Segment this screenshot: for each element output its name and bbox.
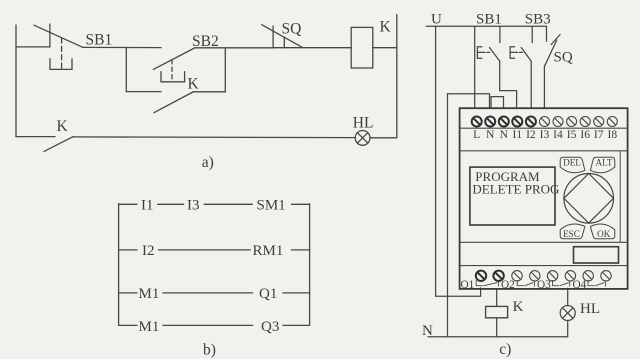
svg-text:I1: I1 [141,198,154,214]
svg-text:Q1: Q1 [461,279,475,291]
module separator below body [459,241,627,243]
wire: branch from top line down to terminal L [474,26,476,107]
pushbutton SB1 actuator button symbol [50,59,72,70]
limit switch SQ (NC) fixed contact tick [272,26,274,48]
bottom terminal labels Q1..Q4 [461,279,587,291]
PLC module outline [460,108,628,289]
wire: lamp HL (c) top lead [567,288,569,305]
svg-text:N: N [500,128,509,141]
module separator above body [459,150,627,152]
svg-text:K: K [513,299,524,315]
ladder b row1 wires [119,203,310,205]
ladder b right rail [309,204,311,326]
pushbutton SB3 E actuator [510,47,522,59]
ladder b left rail [118,204,120,326]
limit switch SQ (c) blade [545,40,557,66]
bottom terminal screws (thin) [512,271,611,281]
module separator above bottom screws [459,265,627,267]
svg-text:ESC: ESC [563,229,580,239]
limit switch SQ (c) upper lead [546,26,548,41]
printed output contact symbols [476,280,605,287]
svg-text:I1: I1 [512,128,522,141]
ladder b row3 wires [119,292,310,294]
svg-text:I5: I5 [567,128,577,141]
ladder b row2 wires [119,249,310,251]
module separator under top screws [459,127,627,129]
wire: SB1 to SB2 [83,46,162,48]
svg-text:I8: I8 [607,128,617,141]
wire: N rail down to N line [447,94,449,337]
svg-text:DELETE PROG: DELETE PROG [472,182,559,197]
wire: SB2 to SQ [195,47,273,49]
wire: part a right rail [396,15,398,138]
wire: N bottom line [428,336,568,338]
svg-text:N: N [486,128,495,141]
wire: N-N terminal jumper [491,97,504,108]
limit switch SQ (NC) blade [262,25,302,48]
svg-text:K: K [188,76,200,93]
svg-text:SM1: SM1 [257,198,286,214]
svg-text:I2: I2 [526,128,536,141]
button OK (wedge key) [590,224,614,239]
navigation pad circle [564,174,614,224]
pushbutton SB1 (c) E actuator [477,47,489,59]
svg-text:Q2: Q2 [501,279,515,291]
wire: SQ (c) lower lead to terminal I3 [543,66,545,108]
svg-text:DEL: DEL [563,157,581,167]
contact K (NO, bottom rung) blade [44,137,73,152]
limit switch SQ vertical tick [283,37,285,48]
pushbutton SB3 blade [521,48,531,62]
wire: U rail down-left [436,26,481,296]
svg-text:SQ: SQ [554,50,573,66]
pushbutton SB3 upper lead [531,26,533,42]
svg-text:HL: HL [353,115,374,132]
svg-text:OK: OK [597,229,611,239]
svg-text:SQ: SQ [282,20,302,37]
svg-text:SB2: SB2 [192,33,219,50]
svg-text:I2: I2 [142,243,155,259]
svg-text:SB1: SB1 [86,32,113,49]
svg-text:SB1: SB1 [476,12,502,28]
lamp HL (c) circle with cross [560,306,575,321]
svg-text:I6: I6 [580,128,590,141]
button DEL (wedge key) [560,157,585,172]
svg-text:ALT: ALT [595,157,612,167]
nameplate small rectangle [574,247,619,263]
svg-text:SB3: SB3 [525,12,551,28]
relay coil K (c) rectangle [486,306,508,317]
svg-text:K: K [57,118,69,135]
wire: part a top rung from rail to SB1 [16,46,50,48]
bottom terminal screws Q1 pair (bold) [476,271,504,281]
wire: parallel branch left drop [126,48,161,92]
top terminal labels [473,128,617,141]
pushbutton SB1 (NC) fixed contact tick [49,24,51,47]
svg-text:HL: HL [580,301,600,317]
svg-text:Q3: Q3 [537,279,551,291]
svg-text:c): c) [499,341,511,358]
top terminal screws L N N I1 I2 (bold) [472,117,536,127]
svg-text:b): b) [203,341,216,358]
wire: lamp HL to right rail [370,137,397,139]
svg-text:I3: I3 [540,128,550,141]
pushbutton SB1 (NC) blade [34,25,83,47]
wire: parallel branch right side [193,48,225,92]
svg-text:N: N [422,323,433,339]
svg-text:I3: I3 [187,198,200,214]
wire: coil K to right rail [373,47,397,49]
svg-text:Q4: Q4 [573,279,587,291]
svg-text:Q1: Q1 [259,286,277,302]
wire: SB1 (c) lower lead to terminal I1 [500,61,517,107]
wire: bottom rung to lamp HL [73,136,355,139]
contact K (NO, parallel with SB2) blade [154,92,193,113]
top terminal screws I3..I8 (thin) [540,117,618,127]
wire: relay K coil bottom lead [496,318,498,337]
keypad inner right edge line [619,151,621,243]
svg-text:Q3: Q3 [261,319,279,335]
pushbutton SB2 actuator button symbol [161,72,185,82]
ladder b row4 wires [119,324,310,326]
lamp HL circle with cross [355,131,370,146]
pushbutton SB1 (c) upper lead [499,26,501,42]
svg-text:K: K [380,18,392,35]
svg-text:I7: I7 [594,128,604,141]
navigation pad diamond [564,174,614,224]
wire: bottom rung left segment [16,136,55,138]
wire: SQ to coil K [273,47,351,49]
svg-text:L: L [473,128,480,141]
wire: N branch to terminal N [448,94,490,108]
svg-text:RM1: RM1 [253,243,284,259]
wire: lamp HL (c) bottom lead [567,320,569,336]
pushbutton SB1 actuator dashed link [61,38,63,69]
button ESC (wedge key) [560,224,585,239]
display window rectangle [470,167,555,225]
wire: part c top supply line U [426,25,546,27]
pushbutton SB1 (c) blade [490,48,500,62]
relay coil K rectangle [351,27,373,68]
button ALT (wedge key) [590,157,614,172]
limit switch SQ (c) cross slash [551,35,560,45]
pushbutton SB2 (NO) blade [153,48,194,69]
wire: part a left rail [15,25,17,137]
svg-text:U: U [431,12,442,28]
wire: SB3 lower lead to terminal I2 [530,61,532,108]
svg-text:M1: M1 [139,286,160,302]
pushbutton SB2 actuator dashed link [171,60,173,82]
svg-text:M1: M1 [139,319,160,335]
wire: relay K coil top lead [496,289,498,307]
svg-text:a): a) [202,154,214,171]
svg-text:I4: I4 [553,128,563,141]
